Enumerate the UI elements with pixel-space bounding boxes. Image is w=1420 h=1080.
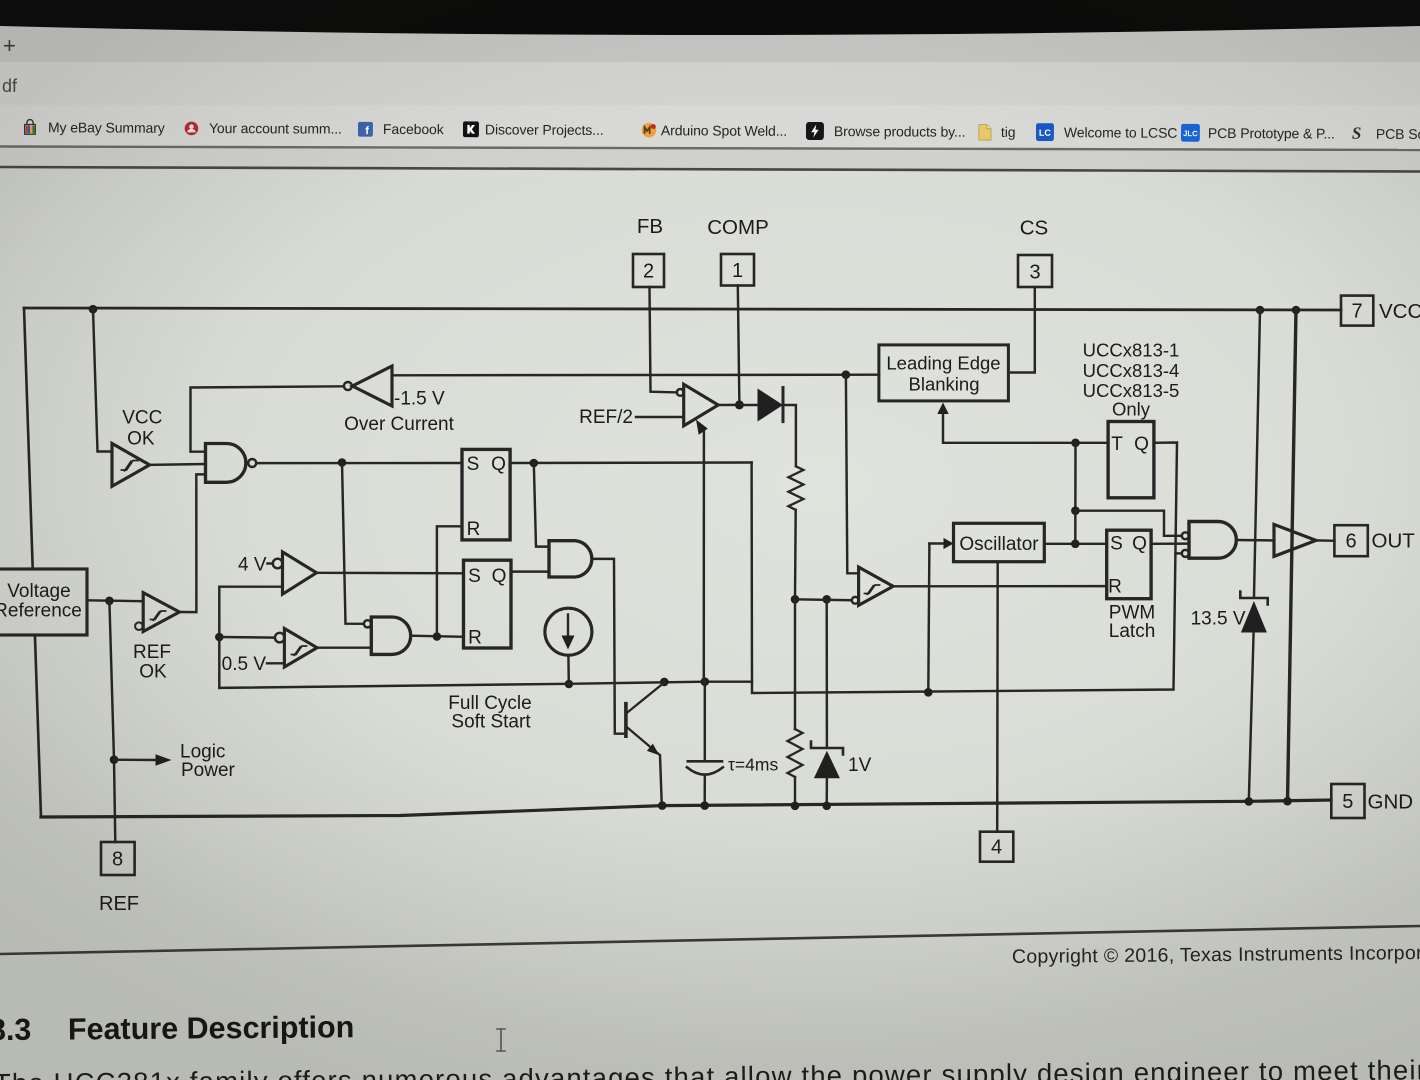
svg-text:3: 3 <box>1029 262 1040 284</box>
svg-text:Leading Edge: Leading Edge <box>886 353 1000 374</box>
node: zener at GND rail <box>1245 797 1254 806</box>
node: latch1 Q branch to AND3 <box>530 459 539 468</box>
node: COMP / error amp output <box>735 400 744 409</box>
wire: 0.5V label dash to lower input <box>267 662 284 664</box>
svg-text:Feature Description: Feature Description <box>68 1010 355 1046</box>
wire: oscillator timing to pin 4 <box>996 562 999 832</box>
wire: pin3 CS down into Leading Edge Blanking <box>1008 287 1034 373</box>
node: NAND1 output branch <box>338 458 347 467</box>
label: PWM Latch <box>1109 603 1155 643</box>
wire: divider node to zener <box>825 599 828 746</box>
hysteresis glyph inside 0.5V comparator <box>292 646 307 655</box>
bubble: NAND2 top input <box>364 620 371 627</box>
label: REF OK <box>133 642 171 683</box>
svg-text:0.5 V: 0.5 V <box>222 654 267 675</box>
svg-text:R: R <box>1108 577 1122 598</box>
wire: AND4 output to driver <box>1236 539 1274 542</box>
svg-text:OUT: OUT <box>1372 530 1416 553</box>
pin 8 box (REF) <box>101 842 135 875</box>
bubble: NAND1 output <box>248 459 256 467</box>
bookmark: PCB Prototype <box>1181 122 1200 144</box>
gate U_nand1 (fault NAND) <box>206 444 246 483</box>
wire: soft start rail <box>219 682 752 688</box>
browser tab strip row <box>0 0 1420 62</box>
svg-text:T: T <box>1111 434 1123 455</box>
pin 4 box <box>980 832 1013 862</box>
node: latch1 R / latch2 R junction <box>433 632 442 641</box>
label: UCCx813 versions <box>1083 340 1180 420</box>
svg-text:FB: FB <box>637 215 663 238</box>
wire: capacitor to GND rail <box>703 775 706 805</box>
node: output stage at GND rail <box>1283 797 1292 806</box>
block: Voltage Reference <box>0 569 87 635</box>
svg-text:τ=4ms: τ=4ms <box>728 755 778 775</box>
node: VCC rail junction to output stage <box>1292 306 1301 315</box>
wire: junction vertical to oscillator output line <box>1074 443 1077 544</box>
svg-text:S: S <box>468 566 481 587</box>
svg-text:1: 1 <box>732 260 743 282</box>
diode D1 (error amp output) <box>739 404 757 406</box>
bubble: REF OK lower input <box>135 622 143 630</box>
latch U_l1 (fault SR latch) <box>462 449 510 540</box>
gate U_nand2 (soft start reset) <box>371 617 410 654</box>
wire: REF OK output up to NAND1 lower input <box>179 474 205 612</box>
wire: oscillator input riser <box>928 544 929 693</box>
text cursor I-beam <box>497 1029 505 1051</box>
wire: PWM latch Q to AND4 middle input <box>1151 542 1189 545</box>
wire: NAND2 output to latch2 R <box>411 636 464 637</box>
bookmark: Welcome to LCSC <box>1036 121 1054 143</box>
wire: AND3 output to clamp transistor base <box>593 559 624 734</box>
svg-text:REF/2: REF/2 <box>579 407 633 428</box>
node: VCC rail left junction <box>89 305 98 314</box>
wire: NAND1 output to latch1 S input <box>256 462 462 465</box>
wire: latch1 Q output line <box>510 461 751 464</box>
svg-text:VCC: VCC <box>122 408 162 429</box>
wire: soft start clamp vertical <box>703 431 706 682</box>
wire: 4V comparator output to latch2 S <box>317 572 464 575</box>
zener anode triangle <box>814 751 840 779</box>
bubble: AND4 bottom inverted input <box>1182 550 1189 557</box>
arrowhead: soft start clamp into error amp <box>696 420 708 435</box>
node: capacitor at GND rail <box>700 801 709 810</box>
bookmark: Facebook <box>358 118 373 140</box>
gate U_and4 (output AND) <box>1189 522 1236 559</box>
node: oscillator input at latch1 Q net <box>924 688 933 697</box>
svg-text:2: 2 <box>643 261 654 283</box>
wire: junction down to PWM comparator + input <box>846 375 859 574</box>
flip-flop U_tff (T Q toggle, x813-1/4/5 only) <box>1108 422 1154 498</box>
svg-text:UCCx813-1: UCCx813-1 <box>1083 340 1180 361</box>
node: clamp transistor collector junction <box>660 678 669 687</box>
wire: soft start node to 4V comparator lower input <box>219 587 282 688</box>
bookmark: Discover Projects <box>463 118 479 140</box>
hysteresis glyph inside PWM comparator <box>865 585 880 594</box>
gate U_and3 (soft start enable AND) <box>549 541 592 577</box>
label: Logic Power <box>180 742 236 782</box>
hysteresis glyph inside REF OK <box>151 611 166 620</box>
svg-text:S: S <box>467 454 480 475</box>
node: T input junction <box>1071 439 1080 448</box>
comparator U_05v (0.5 V) <box>219 636 275 639</box>
diode D1 triangle <box>758 389 784 422</box>
svg-text:Oscillator: Oscillator <box>959 534 1039 555</box>
wire: 4V label dash <box>268 562 273 564</box>
block: Oscillator <box>954 523 1045 561</box>
bookmark: Browse products by <box>806 120 824 142</box>
wire: IC left border <box>24 308 41 817</box>
bubble: PWM comparator inverting input <box>852 597 859 604</box>
wire: branch down to NAND2 top input bubble <box>342 463 364 624</box>
svg-text:8: 8 <box>112 849 123 871</box>
svg-text:Latch: Latch <box>1109 621 1155 642</box>
comparator U_refok (REF OK) <box>143 593 179 632</box>
svg-text:Q: Q <box>492 566 507 587</box>
node: current source junction <box>565 680 574 689</box>
bookmark: tig <box>978 121 992 143</box>
svg-text:VCC: VCC <box>1379 300 1420 323</box>
latch U_pwml (PWM latch) <box>1107 530 1151 599</box>
wire: divider node to PWM comparator inverting input <box>795 598 852 601</box>
svg-text:Voltage: Voltage <box>7 581 70 602</box>
wire: diode to resistor <box>784 405 796 466</box>
bubble: 0.5V comparator inverting input <box>275 633 285 643</box>
node: 0.5V comparator tap <box>215 633 224 642</box>
svg-text:R: R <box>468 628 482 649</box>
wire: zener to GND rail <box>825 778 828 806</box>
bookmark: My eBay Summary <box>22 116 38 138</box>
pin 3 box (CS) <box>1018 255 1052 287</box>
zener cathode bar with wings <box>1240 592 1267 605</box>
capacitor curved bottom plate <box>687 767 723 774</box>
pin 6 box (OUT) <box>1334 525 1367 556</box>
browser address bar row <box>0 62 1420 105</box>
svg-text:Only: Only <box>1112 399 1151 420</box>
wire: IC bottom border / GND rail <box>41 800 1331 817</box>
arrowhead: clock into LEB bottom <box>937 403 948 415</box>
zener anode triangle <box>1241 601 1267 633</box>
zigzag <box>788 466 803 510</box>
svg-text:Blanking: Blanking <box>909 374 980 395</box>
bubble: over current output <box>344 382 352 390</box>
wire: error amp output <box>718 404 739 407</box>
wire: latch1 R to NAND2 output node <box>437 526 462 636</box>
latch U_l2 (soft start SR latch) <box>464 560 512 648</box>
wire: driver output to pin 6 <box>1316 539 1334 542</box>
comparator U_vccok (VCC OK) <box>112 444 150 487</box>
svg-text:1V: 1V <box>848 755 872 776</box>
label: Full Cycle Soft Start <box>448 693 531 733</box>
buffer U_drv (output driver triangle) <box>1274 524 1316 556</box>
svg-text:COMP: COMP <box>707 216 769 239</box>
wire: LEB output line to over current input <box>392 373 879 376</box>
rule: figure separator line <box>0 926 1420 954</box>
wire: VCC rail to zener <box>1254 310 1260 597</box>
wire: T flip flop Q stub to AND4 bottom bubble <box>1175 552 1181 554</box>
diode D1 cathode bar <box>782 388 785 422</box>
svg-text:8.3: 8.3 <box>0 1013 31 1047</box>
node: logic power tap <box>110 755 119 764</box>
node: VCC rail junction to 13.5V zener <box>1256 306 1265 315</box>
wire: branch to AND4 top bubble <box>1075 511 1181 536</box>
label: VCC OK <box>122 408 162 450</box>
wire: oscillator output to PWM latch S <box>1044 543 1106 545</box>
wire: PWM comparator output to PWM latch R <box>893 585 1107 588</box>
label: section heading 8.3 Feature Description <box>0 1010 354 1047</box>
wire: Voltage Reference output to REF OK input <box>87 599 143 602</box>
svg-text:5: 5 <box>1342 791 1353 813</box>
wire: latch2 Q to AND3 lower input <box>511 570 549 572</box>
svg-text:Copyright © 2016, Texas Instru: Copyright © 2016, Texas Instruments Inco… <box>1012 942 1420 968</box>
wire: latch1 Q net down right side <box>752 443 1177 694</box>
svg-text:The UCC381x family offers nume: The UCC381x family offers numerous advan… <box>0 1054 1420 1080</box>
wire: top VCC rail <box>24 308 1341 310</box>
base bar <box>624 704 628 737</box>
emitter lead <box>627 728 660 756</box>
svg-text:S: S <box>1110 534 1123 555</box>
node: CS sense line junction <box>842 370 851 379</box>
capacitor top plate <box>688 760 722 763</box>
svg-text:Q: Q <box>491 454 506 475</box>
node: soft start capacitor junction <box>701 677 710 686</box>
svg-text:GND: GND <box>1368 791 1414 814</box>
svg-text:REF: REF <box>99 893 139 915</box>
svg-text:6: 6 <box>1345 531 1356 553</box>
arrowhead: into oscillator <box>944 538 954 549</box>
wire: logic power arrow <box>114 758 156 761</box>
bookmark: Arduino Spot Weld <box>641 119 657 141</box>
address bar url fragment 'df' <box>2 76 17 97</box>
pin 7 box (VCC) <box>1341 296 1373 326</box>
wire: VCC thick drop to output stage <box>1288 310 1297 801</box>
wire: resistor to divider node <box>794 510 797 599</box>
svg-text:4: 4 <box>991 837 1002 859</box>
wire: pin2 FB down to error amp inverting input <box>650 287 677 392</box>
svg-text:CS: CS <box>1020 217 1048 240</box>
node: divider node at resistor <box>791 595 800 604</box>
pin 2 box (FB) <box>633 254 664 287</box>
wire: soft start line down to capacitor <box>704 682 706 762</box>
wire: REF node down to pin 8 <box>109 601 115 842</box>
wire: emitter to GND rail <box>660 756 662 806</box>
comparator U_oc (Over Current, points left) <box>352 366 392 406</box>
wire: VCC rail to VCC OK comparator input <box>93 309 112 452</box>
top black screen band <box>0 0 1420 44</box>
browser bookmarks bar row <box>0 105 1420 148</box>
node: oscillator output junction <box>1071 540 1080 549</box>
node: divider to zener junction <box>822 595 831 604</box>
bookmark: Your account summ... <box>184 117 199 139</box>
node: zener at GND rail <box>822 802 831 811</box>
svg-text:4 V: 4 V <box>238 555 267 576</box>
node: R_b at GND rail <box>791 802 800 811</box>
wire: pin1 COMP down to error amp output node <box>738 286 740 405</box>
bubble: error amp inverting input <box>677 389 684 396</box>
resistor R_b (divider bottom) <box>794 599 796 729</box>
svg-text:Q: Q <box>1132 534 1147 555</box>
wire: zener to GND rail <box>1249 633 1254 802</box>
bubble: AND4 top inverted input <box>1182 532 1189 539</box>
svg-text:7: 7 <box>1351 301 1362 323</box>
node: branch to AND4 top input <box>1071 506 1080 515</box>
node: REF output junction <box>105 597 114 606</box>
svg-text:REF: REF <box>133 642 171 663</box>
svg-text:UCCx813-4: UCCx813-4 <box>1083 360 1180 381</box>
arrowhead: logic power <box>156 754 172 765</box>
svg-text:Reference: Reference <box>0 601 82 622</box>
wire: over current to NAND1 top input <box>191 386 344 451</box>
arrow inside current source <box>567 615 569 639</box>
svg-text:13.5 V: 13.5 V <box>1191 609 1246 630</box>
bubble: 4V comparator inverting input <box>273 559 283 569</box>
wire: 0.5V comparator output to NAND2 lower input <box>317 646 371 648</box>
svg-text:-1.5 V: -1.5 V <box>394 389 445 410</box>
zener cathode bar with wings <box>811 742 843 755</box>
bookmark: PCB Sol (cut) <box>1352 123 1362 145</box>
bookmarks (slightly tilted like photo) <box>0 0 1420 157</box>
hysteresis glyph inside VCC OK <box>122 461 139 471</box>
svg-text:Power: Power <box>181 760 236 781</box>
svg-text:OK: OK <box>127 429 155 450</box>
new tab + button <box>3 33 16 59</box>
pin 1 box (COMP) <box>721 254 754 286</box>
svg-text:OK: OK <box>139 662 167 683</box>
wire: VCC OK output to NAND1 middle input <box>150 463 206 466</box>
svg-text:R: R <box>467 519 481 540</box>
pin 5 box (GND) <box>1331 784 1364 818</box>
wire: current source to soft start line <box>567 655 570 684</box>
svg-text:Soft Start: Soft Start <box>451 712 531 733</box>
comparator U_pwm (PWM comparator) <box>859 567 894 605</box>
wire: Q branch down to AND3 top input <box>534 463 549 547</box>
node: emitter at GND rail <box>658 801 667 810</box>
current source I_ss <box>545 608 592 655</box>
collector lead <box>627 683 664 713</box>
divider below bookmarks <box>0 0 1420 180</box>
wire: REF/2 to error amp + input <box>636 416 684 418</box>
emitter arrowhead <box>647 744 659 756</box>
svg-text:Over Current: Over Current <box>344 414 455 435</box>
block: Leading Edge Blanking <box>879 345 1009 401</box>
wire: LEB clock line to T flip flop <box>943 413 1108 443</box>
svg-text:Q: Q <box>1134 434 1149 455</box>
